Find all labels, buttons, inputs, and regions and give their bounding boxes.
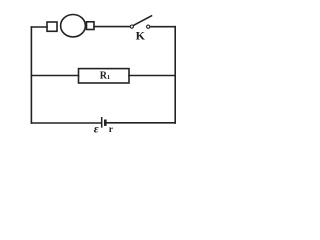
svg-text:K: K [136, 29, 146, 43]
svg-text:ε: ε [94, 121, 99, 135]
